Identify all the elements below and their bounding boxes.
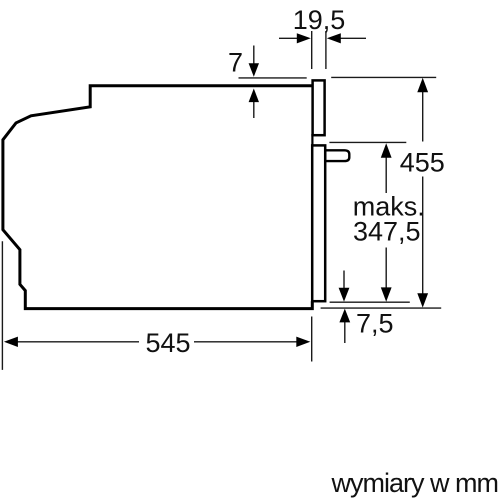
dim 545 left segment with arrow [16, 341, 139, 343]
dim 7,5 line A [330, 301, 410, 303]
svg-text:19,5: 19,5 [293, 5, 346, 35]
dim maks 347,5 extension line [329, 141, 406, 143]
oven body outline [3, 86, 312, 309]
dim 19,5 left arrow [279, 37, 298, 39]
dim 7,5 line B [321, 307, 442, 309]
dim 7,5 lower up arrow [344, 322, 346, 343]
svg-text:wymiary w mm: wymiary w mm [331, 468, 498, 498]
dim 7 down arrow [253, 46, 255, 65]
svg-text:455: 455 [400, 148, 445, 178]
dim 455 top extension line [331, 76, 436, 78]
front control strip [313, 80, 325, 135]
dim 347,5 upper segment with up arrow [385, 156, 387, 193]
dim 7 up arrow [253, 101, 255, 119]
dim 7,5 upper down arrow [343, 271, 345, 290]
dim 545 right segment with arrow [194, 341, 297, 343]
svg-text:545: 545 [145, 328, 190, 358]
panel left edge between strip and door [311, 134, 313, 147]
dim 545 right extension line [311, 317, 313, 362]
dim 545 left extension line [1, 241, 3, 370]
panel top extension line [239, 77, 307, 79]
svg-text:347,5: 347,5 [353, 217, 421, 247]
dim 455 line upper segment with up arrow [422, 91, 424, 142]
dim 347,5 lower segment with down arrow [385, 248, 387, 289]
dim 19,5 extension line left [311, 31, 313, 69]
svg-text:7,5: 7,5 [356, 309, 394, 339]
dim 455 line lower segment with down arrow [422, 177, 424, 295]
svg-text:7: 7 [228, 48, 243, 78]
door handle [325, 150, 349, 161]
dim 19,5 right arrow [340, 37, 366, 39]
oven door [312, 145, 325, 301]
dim 19,5 extension line right [325, 31, 327, 69]
